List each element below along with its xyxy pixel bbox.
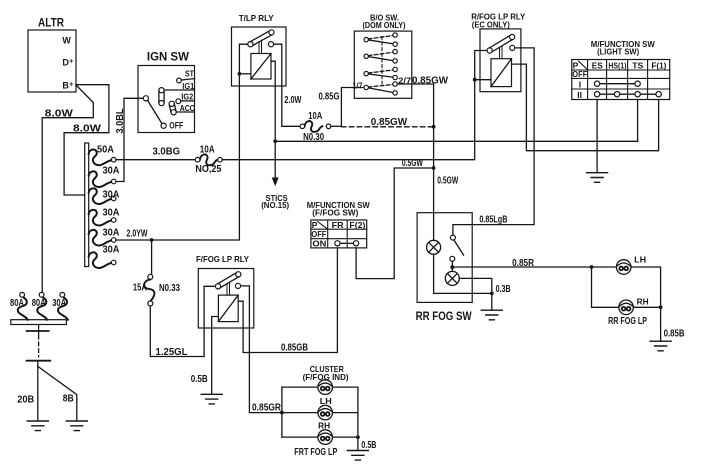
junction RR FOG SW output [450,265,454,269]
F/FOG relay coil [218,295,238,322]
svg-text:F/FOG LP RLY: F/FOG LP RLY [196,254,249,264]
R/FOG relay fixed contact [510,45,515,50]
wire 0.85B to ground [661,307,685,341]
IGN SW rotor arm [148,100,162,123]
junction 0.85GR at lamp bus [280,411,284,415]
wire M/FUNCTION SW ES to ground [596,100,598,173]
svg-text:W: W [62,36,71,46]
svg-text:ON: ON [312,239,326,249]
svg-text:NO,25: NO,25 [195,164,221,175]
junction rear lamps common [659,305,663,309]
svg-text:0.5B: 0.5B [361,440,376,451]
svg-text:OFF: OFF [572,70,587,79]
IGN SW IG1 contact capsule [159,90,195,103]
svg-text:80A: 80A [32,298,46,309]
svg-text:IG2: IG2 [181,92,193,102]
F/FOG relay fixed contact [235,283,240,288]
lamp CLUSTER (F/FOG IND) [303,364,349,395]
back-out switch B/O SW [353,13,412,99]
wire 2.0YW from 30A fuse to T/LP RLY [116,44,248,240]
fuse 30A no.2 [89,166,120,187]
fuse 30A no.5 [89,228,120,246]
junction 0.3B node [490,292,494,296]
svg-text:3.0BG: 3.0BG [153,147,181,158]
B/O SW fixed contacts [393,33,397,37]
fusible link 80A no.2 [32,292,47,319]
IGN SW IG2 contact [181,100,195,102]
ignition switch IGN SW [138,52,195,133]
rear fog switch RR FOG SW [416,213,492,323]
B/O SW mechanical link [381,37,383,85]
svg-text:D⁺: D⁺ [62,58,73,68]
junction R/FOG relay coil feed [473,78,477,82]
svg-text:LH: LH [634,255,646,265]
svg-text:HS(1): HS(1) [608,61,626,71]
IGN SW ST contact [181,79,194,80]
arrow to STICS (NO.15) [261,141,289,210]
B/O SW pole 2 [368,57,393,61]
wire branch to RH rear lamp [592,267,619,307]
ground 0.5B F/FOG relay [201,394,222,404]
T/LP relay fixed contact [268,42,273,47]
R/FOG relay mechanical link [500,46,503,59]
svg-text:3.0BL: 3.0BL [115,109,126,134]
wire RH rear lamp to common [634,306,661,308]
junction 0.85R split [590,265,594,269]
svg-text:0.85B: 0.85B [664,329,685,340]
wire down to fuse NO.33 [151,240,153,274]
svg-text:F(1): F(1) [651,61,666,71]
wire LH rear lamp to common [631,267,661,307]
svg-text:0.3B: 0.3B [496,284,511,295]
F/FOG relay mechanical link [227,282,230,295]
svg-text:ES: ES [592,61,603,71]
svg-text:80A: 80A [10,298,24,309]
svg-text:30A: 30A [103,245,120,256]
svg-text:10A: 10A [308,111,322,122]
svg-text:FR: FR [332,220,344,230]
svg-text:1/7: 1/7 [353,81,363,91]
svg-text:0.85GB: 0.85GB [281,342,308,353]
svg-text:OFF: OFF [169,121,183,131]
RR FOG SW illumination lamp [427,240,441,254]
alternator ALTR [28,16,76,93]
T/LP relay armature bar [249,30,272,46]
wire 0.5GW branch to F/FOG SW F(2) [356,158,434,279]
wire 0.85GW from B/O SW 2/7 to junction [397,76,448,127]
junction dashed 0.85GW node [432,125,436,129]
fuse 50A [89,145,116,166]
wire 0.5B from F/FOG relay coil to ground [191,317,219,395]
fuse block bus bar [85,143,89,267]
wire 0.85G from B/O SW 1/7 [319,88,365,127]
svg-text:LH: LH [320,396,332,406]
wire 0.5GW from junction to RR FOG SW [434,127,459,241]
svg-text:8.0W: 8.0W [45,109,74,120]
wire 3.0BG continues to R/FOG LP RLY (rises at right) [222,51,487,160]
svg-text:8B: 8B [63,394,74,405]
B/O SW pole 1 [368,40,393,44]
ground 0.85B [650,341,671,351]
svg-text:0.85LgB: 0.85LgB [479,214,507,225]
fuse 30A no.6 [89,245,120,268]
svg-text:30A: 30A [103,189,120,200]
lamp RH rear fog [619,296,649,314]
main light switch M/FUNCTION SW (LIGHT SW) [572,39,670,100]
svg-text:T/LP RLY: T/LP RLY [239,13,274,23]
IGN SW common contact [143,96,148,101]
svg-text:RR FOG SW: RR FOG SW [416,309,473,323]
wire 0.85LgB from R/FOG relay contact to RR FOG SW [453,48,534,235]
switch row ON contacts [340,242,354,244]
svg-text:30A: 30A [103,228,120,239]
svg-text:2.0YW: 2.0YW [127,229,148,240]
IGN SW ACC contact capsule [169,103,194,113]
T/LP relay mechanical link [259,40,262,53]
B/O SW pole 4 (1/7) [368,88,393,93]
svg-text:0.85GR: 0.85GR [252,402,282,413]
fusible link 30A no.3 [52,292,68,319]
svg-text:1.25GL: 1.25GL [156,347,188,358]
RR FOG SW indicator lamp [451,267,453,271]
T/LP relay coil [251,54,271,80]
svg-text:0.85GW: 0.85GW [412,76,449,87]
svg-text:TS: TS [632,61,643,71]
svg-text:(NO.15): (NO.15) [261,200,289,210]
svg-text:N0.33: N0.33 [159,283,180,294]
svg-text:IGN SW: IGN SW [147,52,189,64]
front fog lamp bus wires [282,387,358,437]
svg-text:0.85G: 0.85G [319,91,340,102]
wire from junction to M/FUNCTION SW TS terminal [275,100,637,142]
svg-text:10A: 10A [200,145,215,156]
svg-text:(F/FOG SW): (F/FOG SW) [312,208,358,218]
R/FOG relay armature bar [488,35,513,53]
wire 1.25GL from fuse NO.33 to F/FOG LP RLY [150,286,215,358]
svg-text:B⁺: B⁺ [62,81,73,91]
wire 20B battery to ground [17,366,38,421]
B/O SW movable contacts [364,37,368,41]
svg-text:30A: 30A [103,166,120,177]
svg-text:RH: RH [318,421,330,431]
junction T/LP coil output node [273,139,277,143]
svg-text:50A: 50A [97,145,114,156]
svg-text:(LIGHT SW): (LIGHT SW) [597,47,639,57]
F/FOG relay armature bar [217,272,240,288]
svg-text:ALTR: ALTR [38,16,64,30]
wire indicator to 0.3B node [459,278,492,293]
svg-text:30A: 30A [103,208,120,219]
svg-text:(EC ONLY): (EC ONLY) [472,20,510,30]
R/FOG relay coil [491,59,512,87]
svg-text:I: I [579,79,581,89]
svg-text:II: II [577,90,582,100]
svg-text:0.85R: 0.85R [512,258,535,269]
svg-text:N0.30: N0.30 [303,132,324,143]
svg-text:8.0W: 8.0W [73,124,102,135]
junction 2.0YW to fuse NO.33 [150,238,154,242]
fuse 10A NO.25 [195,145,222,176]
ground 0.3B [481,310,502,320]
RR FOG SW switch contacts [450,235,455,240]
B/O SW pole 3 [368,74,393,77]
wire to R/FOG relay coil left terminal [475,79,491,81]
relay F/FOG LP RLY [196,254,254,328]
wire fuse NO.30 to 0.85G riser [331,125,342,127]
ground 0.5B front fog [347,451,368,461]
wire 8B battery to ground [38,366,77,421]
IGN SW OFF contact [161,123,166,128]
ground 8B [66,421,87,431]
svg-text:F(2): F(2) [349,220,365,230]
wire 3.0BG from 50A fuse through fuse NO.25 to R/FOG LP RLY feed [116,147,195,160]
lamp LH rear fog [616,255,646,275]
svg-text:2.0W: 2.0W [284,95,301,106]
fuse 15A NO.33 [133,274,180,306]
switch row II contacts [600,93,656,95]
svg-text:20B: 20B [17,395,34,406]
ground ES [587,173,608,183]
svg-text:(F/FOG IND): (F/FOG IND) [303,372,349,382]
svg-text:P: P [312,220,318,230]
svg-text:ACC: ACC [180,103,195,113]
svg-text:0.85GW: 0.85GW [371,117,408,128]
battery [27,325,51,367]
svg-text:FRT FOG LP: FRT FOG LP [294,447,337,458]
wire from R/FOG relay coil to M/FUNCTION SW F(1) [512,64,659,151]
lamp LH front fog [318,396,333,420]
svg-text:30A: 30A [52,298,66,309]
junction 0.5GW node [432,166,436,170]
svg-text:0.5B: 0.5B [191,374,208,385]
wire from T/LP relay coil to junction [271,61,275,141]
wire 0.3B to ground [492,284,511,310]
svg-text:15A: 15A [133,283,147,294]
relay R/FOG LP RLY (EC ONLY) [471,11,525,91]
ground 20B [27,421,48,431]
lamp RH front fog [318,421,333,445]
wire 0.85R from RR FOG SW to rear fog lamps [452,258,616,269]
fog switch M/FUNCTION SW (F/FOG SW) [307,200,371,249]
wire 3.0BL from fuse 30A to IGN SW [115,98,144,181]
switch row I contacts [600,83,635,85]
svg-text:IG1: IG1 [182,81,194,91]
svg-text:RH: RH [637,296,649,306]
wire 8.0W from ALTR B+ to fuse block bus [64,85,109,195]
wire 0.85GR from F/FOG relay contact to front fog lamps [241,286,282,413]
wire 0.85GB from F/FOG relay coil to F/FOG SW FR [238,248,337,354]
wire lamp to 0.3B node [434,254,492,293]
svg-text:2/7: 2/7 [398,76,411,86]
svg-text:RR FOG LP: RR FOG LP [608,316,647,327]
junction coil feed [238,72,242,76]
wire 8.0W from ALTR B+ to battery fusible link [42,85,93,292]
wire 2.0W from T/LP relay contact to fuse NO.30 [274,44,302,126]
fuse 10A NO.30 [300,111,331,143]
svg-text:0.5GW: 0.5GW [402,158,423,169]
fuse 30A no.3 [89,188,120,204]
wire 0.5B front fog to ground [358,437,377,451]
svg-text:0.5GW: 0.5GW [437,175,458,186]
fusible link 80A no.1 [10,292,28,319]
svg-text:(DOM ONLY): (DOM ONLY) [363,20,406,30]
junction lamp bus to ground [356,435,360,439]
relay T/LP RLY [232,13,287,86]
fusible link bus bar (battery) [11,320,67,325]
svg-text:ST: ST [185,69,195,79]
wire 0.85GW dashed (DOM) [341,117,433,128]
fuse 30A no.4 [89,208,120,226]
